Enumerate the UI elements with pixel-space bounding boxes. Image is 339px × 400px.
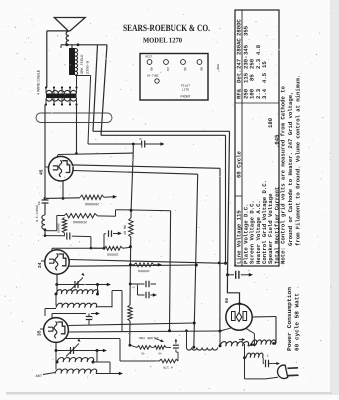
svg-text:15: 15 — [261, 61, 268, 68]
svg-text:45: 45 — [39, 169, 45, 175]
svg-text:MODEL 1270: MODEL 1270 — [143, 37, 182, 45]
svg-text:SPK FIELD: SPK FIELD — [80, 55, 85, 74]
svg-text:2300-Ω: 2300-Ω — [86, 60, 91, 74]
svg-text:24: 24 — [37, 262, 43, 268]
svg-text:ANT: ANT — [36, 374, 43, 379]
svg-text:35: 35 — [37, 330, 43, 336]
svg-text:SEARS-ROEBUCK & CO.: SEARS-ROEBUCK & CO. — [123, 23, 210, 34]
svg-text:45: 45 — [141, 352, 145, 355]
svg-text:REST: REST — [146, 56, 153, 59]
svg-text:Ground or Cathode to Heater.: Ground or Cathode to Heater. 247 Grid vo… — [287, 92, 294, 246]
svg-text:24: 24 — [166, 67, 170, 71]
svg-text:4.8: 4.8 — [255, 44, 262, 55]
svg-text:40Ω: 40Ω — [216, 64, 220, 70]
svg-text:345: 345 — [242, 44, 249, 55]
svg-text:35: 35 — [183, 67, 187, 71]
svg-text:60 Cycle: 60 Cycle — [236, 151, 243, 178]
svg-text:Note: Control grid volts are: Note: Control grid volts are measured fr… — [280, 85, 287, 264]
svg-text:80: 80 — [225, 297, 230, 303]
svg-text:4 WIRE CABLE: 4 WIRE CABLE — [37, 69, 41, 95]
svg-text:FRONT: FRONT — [180, 95, 190, 100]
svg-text:85: 85 — [249, 74, 256, 81]
svg-text:355: 355 — [242, 25, 249, 36]
svg-text:PILOT: PILOT — [181, 85, 190, 88]
svg-text:200000Ω: 200000Ω — [85, 201, 99, 206]
svg-text:from Filament to Ground. Volum: from Filament to Ground. Volume control … — [295, 75, 302, 246]
svg-text:4.5: 4.5 — [261, 72, 268, 83]
svg-text:10000Ω: 10000Ω — [138, 269, 150, 273]
svg-text:40: 40 — [158, 352, 162, 355]
svg-text:∅ 170: ∅ 170 — [163, 366, 173, 370]
svg-text:3.4: 3.4 — [261, 88, 268, 99]
svg-text:VOLUME CON.: VOLUME CON. — [137, 336, 158, 340]
svg-text:250000Ω: 250000Ω — [73, 219, 87, 224]
svg-text:50000: 50000 — [57, 223, 61, 233]
svg-text:80: 80 — [200, 67, 204, 71]
svg-text:LITE: LITE — [182, 89, 189, 92]
svg-text:180: 180 — [267, 117, 274, 128]
svg-text:Power Consumption: Power Consumption — [286, 286, 293, 351]
svg-text:45: 45 — [150, 67, 154, 71]
svg-text:40 MΩ: 40 MΩ — [123, 225, 128, 235]
svg-text:80-TUBE: 80-TUBE — [147, 75, 159, 78]
svg-text:.1: .1 — [132, 286, 136, 290]
svg-text:.1: .1 — [265, 354, 269, 358]
svg-text:R.F.CHOKE: R.F.CHOKE — [35, 205, 39, 222]
svg-text:60 cycle 58 Watt: 60 cycle 58 Watt — [294, 293, 301, 351]
